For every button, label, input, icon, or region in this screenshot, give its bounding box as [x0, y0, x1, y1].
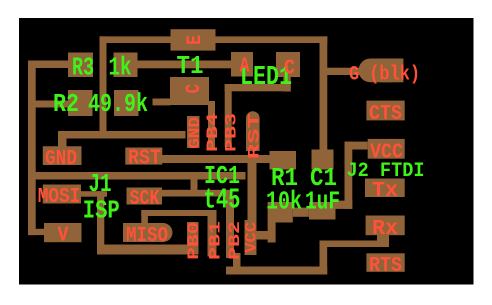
- svg-text:VCC: VCC: [370, 141, 403, 165]
- svg-text:PB4: PB4: [204, 112, 222, 152]
- svg-text:E: E: [184, 35, 207, 45]
- svg-text:PB1: PB1: [207, 221, 225, 260]
- svg-text:1k: 1k: [109, 54, 132, 83]
- svg-text:MOSI: MOSI: [38, 185, 81, 209]
- svg-text:Tx: Tx: [372, 179, 398, 203]
- svg-text:C: C: [183, 84, 206, 94]
- svg-text:PB0: PB0: [185, 222, 203, 260]
- svg-text:VCC: VCC: [243, 221, 261, 252]
- svg-text:J1: J1: [89, 170, 112, 199]
- svg-text:RTS: RTS: [369, 254, 402, 278]
- svg-text:GND: GND: [186, 117, 204, 149]
- svg-text:SCK: SCK: [130, 187, 160, 211]
- svg-text:49.9k: 49.9k: [88, 90, 148, 119]
- svg-text:RST: RST: [246, 113, 264, 160]
- svg-text:T1: T1: [177, 52, 204, 81]
- svg-text:V: V: [58, 224, 69, 248]
- svg-text:10k: 10k: [266, 188, 302, 217]
- svg-text:RST: RST: [128, 147, 161, 171]
- svg-text:CTS: CTS: [369, 102, 402, 126]
- svg-text:MISO: MISO: [126, 224, 168, 248]
- svg-text:C: C: [284, 58, 295, 81]
- svg-text:A: A: [240, 56, 250, 79]
- svg-text:1uF: 1uF: [305, 188, 340, 217]
- svg-text:t45: t45: [204, 184, 241, 217]
- svg-text:GND: GND: [45, 147, 77, 171]
- svg-text:PB3: PB3: [223, 113, 241, 152]
- svg-text:R3: R3: [72, 54, 94, 83]
- svg-text:G (blk): G (blk): [349, 64, 420, 87]
- svg-text:R2: R2: [53, 90, 79, 119]
- svg-text:Rx: Rx: [372, 217, 398, 241]
- svg-text:PB2: PB2: [226, 221, 244, 260]
- svg-text:ISP: ISP: [83, 196, 120, 225]
